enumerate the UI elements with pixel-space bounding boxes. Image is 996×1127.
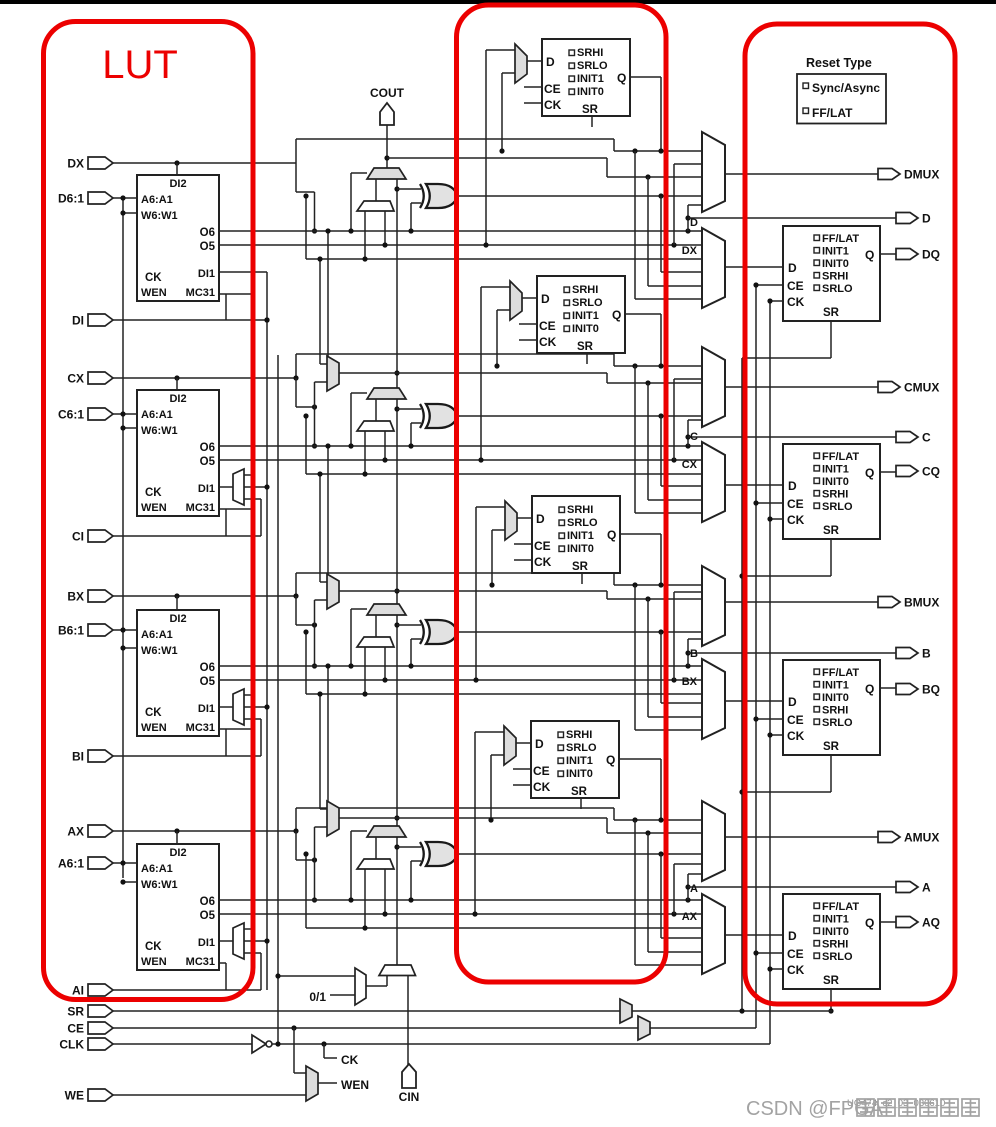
svg-text:FF/LAT: FF/LAT — [822, 901, 859, 913]
svg-text:INIT0: INIT0 — [566, 768, 593, 780]
svg-text:SRLO: SRLO — [577, 60, 608, 72]
svg-text:CE: CE — [787, 279, 804, 293]
svg-text:DI1: DI1 — [198, 937, 215, 949]
svg-text:WEN: WEN — [141, 722, 167, 734]
svg-text:AX: AX — [682, 911, 698, 923]
svg-text:B: B — [690, 648, 698, 660]
svg-text:CE: CE — [544, 82, 561, 96]
svg-text:D: D — [536, 512, 545, 526]
svg-text:INIT0: INIT0 — [572, 323, 599, 335]
svg-text:BMUX: BMUX — [904, 596, 939, 610]
svg-text:FF/LAT: FF/LAT — [822, 233, 859, 245]
svg-text:SR: SR — [571, 786, 588, 798]
svg-text:SRHI: SRHI — [572, 284, 598, 296]
svg-text:SRLO: SRLO — [822, 283, 853, 295]
svg-text:SR: SR — [823, 975, 840, 987]
svg-text:DX: DX — [67, 157, 84, 171]
svg-text:WEN: WEN — [141, 502, 167, 514]
svg-text:O5: O5 — [200, 456, 216, 468]
svg-text:INIT0: INIT0 — [567, 543, 594, 555]
svg-text:O6: O6 — [200, 442, 215, 454]
svg-text:D: D — [788, 479, 797, 493]
svg-text:CK: CK — [145, 707, 162, 719]
svg-text:B: B — [922, 647, 931, 661]
svg-text:CK: CK — [341, 1053, 359, 1067]
svg-text:CE: CE — [67, 1022, 84, 1036]
svg-text:CE: CE — [787, 497, 804, 511]
svg-text:INIT0: INIT0 — [822, 258, 849, 270]
svg-text:SR: SR — [582, 104, 599, 116]
svg-text:DMUX: DMUX — [904, 168, 939, 182]
svg-text:A6:A1: A6:A1 — [141, 194, 173, 206]
svg-text:INIT0: INIT0 — [822, 926, 849, 938]
svg-text:INIT1: INIT1 — [822, 464, 849, 476]
svg-text:AI: AI — [72, 984, 84, 998]
svg-text:C: C — [690, 431, 698, 443]
svg-text:O5: O5 — [200, 241, 216, 253]
svg-text:A: A — [922, 881, 931, 895]
svg-text:SR: SR — [577, 341, 594, 353]
svg-text:BQ: BQ — [922, 683, 940, 697]
svg-text:CK: CK — [787, 513, 805, 527]
svg-text:INIT0: INIT0 — [822, 692, 849, 704]
svg-text:MC31: MC31 — [186, 722, 215, 734]
svg-text:CK: CK — [534, 555, 552, 569]
svg-text:SR: SR — [67, 1005, 84, 1019]
svg-text:CK: CK — [145, 941, 162, 953]
svg-text:SRLO: SRLO — [822, 501, 853, 513]
svg-text:DI2: DI2 — [169, 847, 186, 859]
svg-text:CK: CK — [787, 729, 805, 743]
svg-text:O5: O5 — [200, 910, 216, 922]
svg-text:SRHI: SRHI — [567, 504, 593, 516]
svg-text:D6:1: D6:1 — [58, 192, 84, 206]
svg-text:Q: Q — [612, 308, 621, 322]
svg-text:Q: Q — [865, 248, 874, 262]
svg-text:D: D — [546, 55, 555, 69]
svg-text:INIT1: INIT1 — [577, 73, 604, 85]
svg-text:W6:W1: W6:W1 — [141, 879, 178, 891]
svg-text:Q: Q — [865, 682, 874, 696]
svg-text:D: D — [922, 212, 931, 226]
svg-text:CE: CE — [533, 764, 550, 778]
svg-text:WEN: WEN — [141, 956, 167, 968]
svg-text:Reset Type: Reset Type — [806, 56, 872, 70]
svg-text:A6:1: A6:1 — [58, 857, 84, 871]
svg-text:INIT0: INIT0 — [822, 476, 849, 488]
svg-text:SRLO: SRLO — [572, 297, 603, 309]
svg-text:BX: BX — [67, 590, 84, 604]
svg-text:DI1: DI1 — [198, 703, 215, 715]
svg-text:B6:1: B6:1 — [58, 624, 84, 638]
svg-text:D: D — [788, 929, 797, 943]
svg-text:SRHI: SRHI — [577, 47, 603, 59]
svg-text:Q: Q — [865, 916, 874, 930]
svg-text:SRLO: SRLO — [822, 951, 853, 963]
svg-text:DI2: DI2 — [169, 613, 186, 625]
svg-text:WEN: WEN — [341, 1078, 369, 1092]
svg-text:A: A — [690, 883, 698, 895]
svg-text:SRHI: SRHI — [822, 705, 848, 717]
svg-text:Q: Q — [617, 71, 626, 85]
svg-text:SR: SR — [823, 525, 840, 537]
svg-text:CK: CK — [145, 487, 162, 499]
svg-text:CK: CK — [533, 780, 551, 794]
svg-text:MC31: MC31 — [186, 502, 215, 514]
svg-text:FF/LAT: FF/LAT — [822, 667, 859, 679]
svg-text:C: C — [922, 431, 931, 445]
svg-text:DI2: DI2 — [169, 393, 186, 405]
svg-text:CK: CK — [544, 98, 562, 112]
svg-text:CE: CE — [787, 713, 804, 727]
svg-text:A6:A1: A6:A1 — [141, 629, 173, 641]
svg-text:DQ: DQ — [922, 248, 940, 262]
svg-text:INIT0: INIT0 — [577, 86, 604, 98]
svg-text:SR: SR — [572, 561, 589, 573]
svg-text:Q: Q — [865, 466, 874, 480]
svg-text:Q: Q — [606, 753, 615, 767]
svg-text:DI: DI — [72, 314, 84, 328]
svg-text:FF/LAT: FF/LAT — [822, 451, 859, 463]
svg-text:FF/LAT: FF/LAT — [812, 106, 853, 120]
svg-text:CE: CE — [539, 319, 556, 333]
svg-text:CK: CK — [787, 295, 805, 309]
svg-text:W6:W1: W6:W1 — [141, 645, 178, 657]
svg-text:D: D — [690, 217, 698, 229]
svg-text:A6:A1: A6:A1 — [141, 863, 173, 875]
svg-text:SRHI: SRHI — [566, 729, 592, 741]
svg-text:MC31: MC31 — [186, 956, 215, 968]
svg-text:MC31: MC31 — [186, 287, 215, 299]
svg-text:O6: O6 — [200, 662, 215, 674]
svg-text:O6: O6 — [200, 227, 215, 239]
svg-text:BI: BI — [72, 750, 84, 764]
svg-text:INIT1: INIT1 — [567, 530, 594, 542]
svg-text:0/1: 0/1 — [309, 990, 326, 1004]
svg-text:CLK: CLK — [59, 1038, 84, 1052]
svg-text:INIT1: INIT1 — [822, 680, 849, 692]
svg-text:CIN: CIN — [399, 1090, 420, 1104]
svg-text:C6:1: C6:1 — [58, 408, 84, 422]
svg-text:CX: CX — [682, 459, 698, 471]
svg-text:WE: WE — [65, 1089, 84, 1103]
svg-text:SRLO: SRLO — [822, 717, 853, 729]
svg-text:DI1: DI1 — [198, 268, 215, 280]
svg-text:Q: Q — [607, 528, 616, 542]
svg-text:SR: SR — [823, 307, 840, 319]
svg-text:COUT: COUT — [370, 86, 405, 100]
svg-text:CI: CI — [72, 530, 84, 544]
svg-text:CK: CK — [787, 963, 805, 977]
svg-text:W6:W1: W6:W1 — [141, 210, 178, 222]
svg-text:D: D — [788, 695, 797, 709]
svg-text:INIT1: INIT1 — [566, 755, 593, 767]
svg-text:INIT1: INIT1 — [822, 914, 849, 926]
svg-text:W6:W1: W6:W1 — [141, 425, 178, 437]
svg-text:INIT1: INIT1 — [572, 310, 599, 322]
svg-text:AQ: AQ — [922, 916, 940, 930]
svg-text:CE: CE — [787, 947, 804, 961]
svg-text:LUT: LUT — [102, 43, 178, 87]
svg-text:CK: CK — [539, 335, 557, 349]
svg-text:CQ: CQ — [922, 465, 940, 479]
svg-text:SRHI: SRHI — [822, 939, 848, 951]
svg-text:WEN: WEN — [141, 287, 167, 299]
svg-text:CMUX: CMUX — [904, 381, 939, 395]
svg-text:SR: SR — [823, 741, 840, 753]
svg-text:A6:A1: A6:A1 — [141, 409, 173, 421]
svg-text:CE: CE — [534, 539, 551, 553]
svg-text:SRLO: SRLO — [566, 742, 597, 754]
svg-text:CK: CK — [145, 272, 162, 284]
svg-text:D: D — [788, 261, 797, 275]
svg-text:DI2: DI2 — [169, 178, 186, 190]
svg-text:SRHI: SRHI — [822, 271, 848, 283]
svg-text:CX: CX — [67, 372, 84, 386]
svg-text:AMUX: AMUX — [904, 831, 939, 845]
svg-text:SRHI: SRHI — [822, 489, 848, 501]
svg-text:O5: O5 — [200, 676, 216, 688]
svg-text:DI1: DI1 — [198, 483, 215, 495]
svg-text:BX: BX — [682, 676, 698, 688]
svg-text:AX: AX — [67, 825, 84, 839]
svg-text:Sync/Async: Sync/Async — [812, 81, 880, 95]
svg-text:D: D — [541, 292, 550, 306]
svg-text:DX: DX — [682, 245, 698, 257]
svg-text:SRLO: SRLO — [567, 517, 598, 529]
svg-text:O6: O6 — [200, 896, 215, 908]
svg-text:D: D — [535, 737, 544, 751]
svg-text:INIT1: INIT1 — [822, 246, 849, 258]
